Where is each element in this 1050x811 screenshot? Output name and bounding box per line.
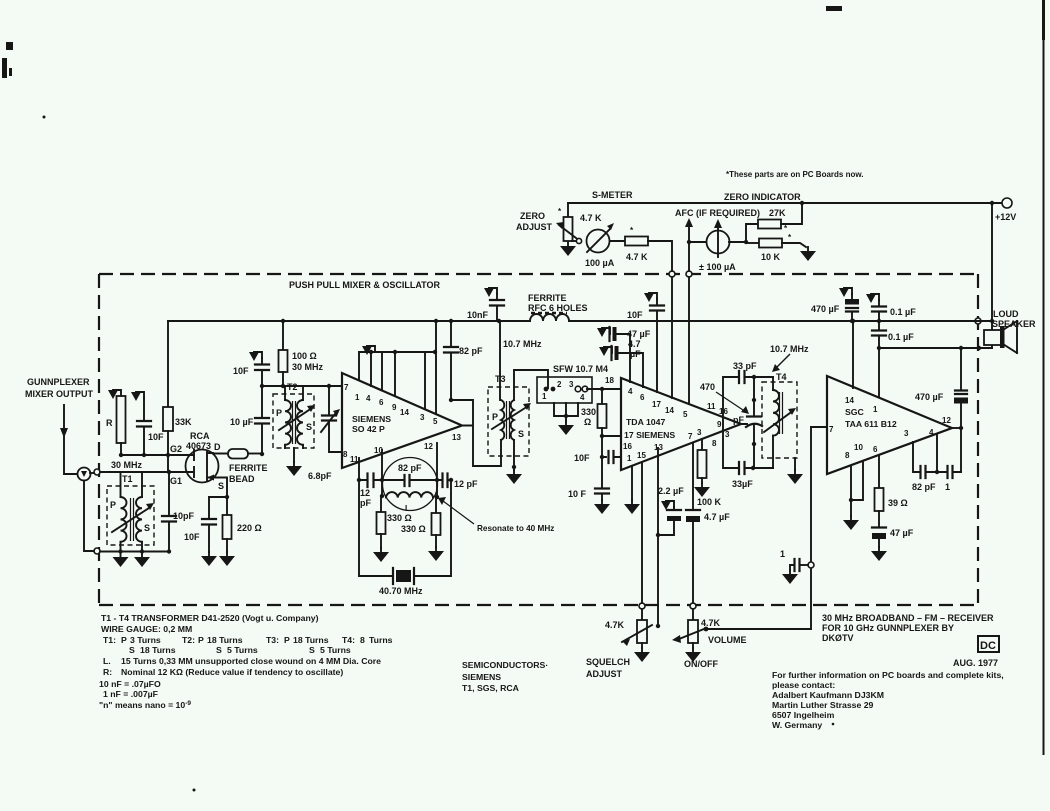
svg-text:33µF: 33µF xyxy=(732,479,753,489)
resistor R (bias) xyxy=(106,390,126,455)
capacitor 1n squelch line xyxy=(780,549,814,584)
svg-text:DKØTV: DKØTV xyxy=(822,633,854,643)
resistor 330 ohm right xyxy=(401,497,444,561)
svg-text:ZERO: ZERO xyxy=(520,211,545,221)
wire connector shield xyxy=(84,481,94,552)
node: border crossing circles xyxy=(669,271,675,277)
capacitor 1n feedback xyxy=(945,466,953,492)
svg-text:1 nF = .007µF: 1 nF = .007µF xyxy=(103,689,158,699)
svg-text:3: 3 xyxy=(904,429,909,438)
svg-text:6: 6 xyxy=(640,393,645,402)
svg-text:FERRITE: FERRITE xyxy=(229,463,268,473)
svg-text:14: 14 xyxy=(845,396,854,405)
svg-text:ADJUST: ADJUST xyxy=(516,222,553,232)
svg-text:10 F: 10 F xyxy=(568,489,587,499)
contact text xyxy=(772,670,1004,730)
svg-text:17 SIEMENS: 17 SIEMENS xyxy=(624,430,675,440)
wire pin13 to T3 loop xyxy=(449,398,500,466)
svg-text:1: 1 xyxy=(945,482,950,492)
ground T3 xyxy=(506,465,522,484)
terminal +12V xyxy=(1002,198,1012,208)
AFC arrow xyxy=(685,218,693,271)
svg-text:7: 7 xyxy=(688,432,693,441)
svg-text:4.7 K: 4.7 K xyxy=(580,213,602,223)
svg-text:1: 1 xyxy=(627,454,632,463)
svg-text:30 MHz: 30 MHz xyxy=(292,362,324,372)
label semiconductors xyxy=(462,660,548,693)
wire U3 output apex xyxy=(952,427,961,429)
wire G2 net xyxy=(121,454,190,456)
svg-text:220 Ω: 220 Ω xyxy=(237,523,262,533)
svg-text:4: 4 xyxy=(366,394,371,403)
capacitor 470uF output xyxy=(915,348,968,472)
resistor 100 ohm xyxy=(279,319,324,388)
svg-text:For further information on PC: For further information on PC boards and… xyxy=(772,670,1004,680)
ground T1 P xyxy=(113,553,129,567)
svg-text:11: 11 xyxy=(707,402,716,411)
svg-text:330: 330 xyxy=(581,407,596,417)
wire T2 top net xyxy=(262,385,342,387)
resistor 4.7K xyxy=(625,226,648,262)
op-amp U1 SIEMENS SO 42 P xyxy=(342,373,462,468)
svg-text:14: 14 xyxy=(400,408,409,417)
svg-text:5: 5 xyxy=(683,410,688,419)
svg-text:T1: T1 xyxy=(122,474,133,484)
ferrite bead FB1 xyxy=(213,449,268,484)
ground T1 S xyxy=(134,553,150,567)
svg-text:47 µF: 47 µF xyxy=(890,528,914,538)
wire pin13 to squelch wiper xyxy=(657,448,659,626)
op-amp U3 TAA 611 B12 xyxy=(827,376,952,474)
capacitor 470pF variable xyxy=(700,377,762,468)
svg-text:82 pF: 82 pF xyxy=(912,482,936,492)
svg-text:3: 3 xyxy=(569,380,574,389)
svg-text:S: S xyxy=(144,523,150,533)
wire 4.7K to pin14 column xyxy=(648,241,672,271)
svg-text:1: 1 xyxy=(542,392,547,401)
svg-text:0.1 µF: 0.1 µF xyxy=(888,332,914,342)
svg-text:10 µF: 10 µF xyxy=(230,417,254,427)
svg-text:P: P xyxy=(492,412,498,422)
svg-text:100 K: 100 K xyxy=(697,497,722,507)
svg-text:6507 Ingelheim: 6507 Ingelheim xyxy=(772,710,835,720)
svg-text:R: R xyxy=(106,418,113,428)
svg-text:L: L xyxy=(405,504,410,513)
wire G1 net xyxy=(100,471,190,473)
svg-text:6: 6 xyxy=(873,445,878,454)
svg-text:15: 15 xyxy=(637,451,646,460)
wire input with arrow xyxy=(60,405,77,474)
node wiper xyxy=(572,240,576,242)
capacitor 33pF top xyxy=(733,361,757,383)
svg-text:82 pF: 82 pF xyxy=(459,346,483,356)
svg-text:RCA: RCA xyxy=(190,431,210,441)
svg-text:10F: 10F xyxy=(148,432,164,442)
svg-text:6: 6 xyxy=(379,398,384,407)
svg-text:LOUD: LOUD xyxy=(993,309,1019,319)
svg-text:9: 9 xyxy=(717,420,722,429)
svg-text:10.7 MHz: 10.7 MHz xyxy=(770,344,809,354)
svg-text:30 MHz: 30 MHz xyxy=(111,460,143,470)
svg-text:100 µA: 100 µA xyxy=(585,258,615,268)
capacitor 10F (T2 top) xyxy=(233,352,269,386)
svg-text:SIEMENS: SIEMENS xyxy=(352,414,391,424)
svg-text:ON/OFF: ON/OFF xyxy=(684,659,718,669)
svg-text:2.2 µF: 2.2 µF xyxy=(658,486,684,496)
wire pin5 AFC column xyxy=(688,277,690,404)
capacitor 10uF coupling xyxy=(230,384,269,456)
wire output rail xyxy=(879,346,992,350)
svg-text:S: S xyxy=(518,429,524,439)
wire T3 to SFW xyxy=(514,370,548,388)
svg-text:33 pF: 33 pF xyxy=(733,361,757,371)
capacitor 10F (gate2) xyxy=(131,392,164,455)
svg-text:1: 1 xyxy=(355,393,360,402)
svg-text:330 Ω: 330 Ω xyxy=(387,513,412,523)
svg-text:WIRE GAUGE: 0,2 MM: WIRE GAUGE: 0,2 MM xyxy=(101,624,192,634)
wire U3 pin3 pin4 feedback xyxy=(913,435,961,474)
svg-text:10F: 10F xyxy=(233,366,249,376)
svg-text:27K: 27K xyxy=(769,208,786,218)
capacitor 82pF IF xyxy=(444,319,483,400)
svg-text:470 µF: 470 µF xyxy=(915,392,944,402)
capacitor 10F (source) xyxy=(184,497,217,566)
svg-text:S: S xyxy=(218,481,224,491)
capacitor 2.2uF xyxy=(656,486,684,537)
svg-text:4.7K: 4.7K xyxy=(605,620,625,630)
capacitor 10nF xyxy=(467,288,504,323)
svg-text:BEAD: BEAD xyxy=(229,474,255,484)
svg-text:SO 42 P: SO 42 P xyxy=(352,424,385,434)
svg-text:TDA 1047: TDA 1047 xyxy=(626,417,665,427)
svg-text:10nF: 10nF xyxy=(467,310,489,320)
svg-text:DC: DC xyxy=(980,640,996,652)
svg-text:µF: µF xyxy=(630,349,641,359)
svg-text:S: S xyxy=(306,422,312,432)
svg-text:12: 12 xyxy=(424,442,433,451)
svg-text:2: 2 xyxy=(557,380,562,389)
wire pin15 to squelch xyxy=(641,462,643,603)
svg-text:± 100 µA: ± 100 µA xyxy=(699,262,736,272)
capacitor 10F series pin1 xyxy=(574,451,621,463)
transformer T2 xyxy=(273,382,315,476)
svg-text:33K: 33K xyxy=(175,417,192,427)
svg-text:10F: 10F xyxy=(627,310,643,320)
svg-text:RFC 6 HOLES: RFC 6 HOLES xyxy=(528,303,588,313)
wire pin11 down xyxy=(358,458,360,480)
capacitor 10pF xyxy=(162,472,195,552)
svg-text:3: 3 xyxy=(697,428,702,437)
svg-text:G2: G2 xyxy=(170,444,182,454)
capacitor 82pF osc xyxy=(398,463,422,486)
resistor 100K xyxy=(694,439,722,507)
svg-text:AUG. 1977: AUG. 1977 xyxy=(953,658,998,668)
wire osc feedback loop xyxy=(359,480,451,576)
wire volume to U3 pin7 xyxy=(706,427,811,629)
svg-text:11: 11 xyxy=(350,455,359,464)
svg-text:39 Ω: 39 Ω xyxy=(888,498,908,508)
resistor 330 ohm left xyxy=(373,496,412,562)
svg-text:8: 8 xyxy=(712,439,717,448)
svg-text:pF: pF xyxy=(733,415,744,425)
svg-text:8: 8 xyxy=(343,450,348,459)
svg-text:4.7 K: 4.7 K xyxy=(626,252,648,262)
svg-text:4.7: 4.7 xyxy=(628,339,641,349)
wire pin12 down xyxy=(436,443,438,497)
transformer T1 xyxy=(107,472,154,552)
wire pin16 ground xyxy=(624,466,640,514)
wire pin17 xyxy=(602,435,621,437)
svg-text:10.7 MHz: 10.7 MHz xyxy=(503,339,542,349)
svg-text:please contact:: please contact: xyxy=(772,680,835,690)
svg-text:SGC: SGC xyxy=(845,407,865,417)
svg-text:47 µF: 47 µF xyxy=(627,329,651,339)
resistor 33K xyxy=(163,321,192,472)
ground hook U1 bus xyxy=(362,346,375,355)
svg-text:R:Nominal 12 KΩ (Reduce value: R:Nominal 12 KΩ (Reduce value if tendenc… xyxy=(103,667,343,677)
svg-text:4.7 µF: 4.7 µF xyxy=(704,512,730,522)
svg-text:D: D xyxy=(214,442,221,452)
capacitor 47uF xyxy=(597,327,651,382)
capacitor 12pF right xyxy=(443,474,479,490)
svg-text:12 pF: 12 pF xyxy=(454,479,478,489)
wire pin10 down xyxy=(381,450,383,496)
svg-text:16: 16 xyxy=(623,442,632,451)
svg-text:T1, SGS, RCA: T1, SGS, RCA xyxy=(462,683,520,693)
wire T1 bottom net xyxy=(100,551,169,553)
svg-text:9: 9 xyxy=(392,403,397,412)
wire U3 pin14 supply xyxy=(851,319,855,388)
svg-text:5: 5 xyxy=(433,417,438,426)
capacitor 4.7uF top xyxy=(599,339,643,387)
svg-text:14: 14 xyxy=(665,406,674,415)
svg-text:82 pF: 82 pF xyxy=(398,463,422,473)
op-amp U2 TDA 1047 xyxy=(605,376,741,470)
svg-text:10pF: 10pF xyxy=(173,511,195,521)
svg-text:4: 4 xyxy=(929,428,934,437)
svg-text:PUSH PULL MIXER & OSCILLATOR: PUSH PULL MIXER & OSCILLATOR xyxy=(289,280,441,290)
svg-text:"n" means nano = 10-9: "n" means nano = 10-9 xyxy=(99,700,191,710)
crystal X1 40.70 MHz xyxy=(379,568,423,596)
wire SFW grounds xyxy=(554,403,578,435)
svg-text:470: 470 xyxy=(700,382,715,392)
wire pin14 AFC-meter column xyxy=(671,277,673,398)
svg-text:P: P xyxy=(110,500,116,510)
meter M2 zero indicator xyxy=(699,219,736,272)
wire S-meter rail xyxy=(568,203,1002,321)
svg-text:10 K: 10 K xyxy=(761,252,781,262)
svg-text:ADJUST: ADJUST xyxy=(586,669,623,679)
ground T4 xyxy=(787,458,803,484)
potentiometer squelch 4.7K xyxy=(586,609,660,679)
transformer T4 xyxy=(762,372,797,468)
resistor 220 ohm xyxy=(219,497,262,566)
svg-text:18: 18 xyxy=(605,376,614,385)
capacitor 0.1uF lower xyxy=(872,319,914,350)
capacitor 33pF bottom xyxy=(732,462,753,489)
svg-text:12: 12 xyxy=(360,488,370,498)
connector J1 xyxy=(78,468,91,481)
svg-text:3: 3 xyxy=(725,430,730,439)
svg-text:G1: G1 xyxy=(170,476,182,486)
svg-text:0.1 µF: 0.1 µF xyxy=(890,307,916,317)
svg-text:470 µF: 470 µF xyxy=(811,304,840,314)
transformer T3 xyxy=(488,321,531,467)
svg-text:SQUELCH: SQUELCH xyxy=(586,657,630,667)
wire J1 to border xyxy=(90,472,94,474)
svg-text:6.8pF: 6.8pF xyxy=(308,471,332,481)
svg-text:SEMICONDUCTORS·: SEMICONDUCTORS· xyxy=(462,660,548,670)
oscillator tank wire xyxy=(357,478,453,482)
svg-text:Adalbert Kaufmann DJ3KM: Adalbert Kaufmann DJ3KM xyxy=(772,690,884,700)
svg-text:S-METER: S-METER xyxy=(592,190,633,200)
svg-text:7: 7 xyxy=(344,383,349,392)
svg-text:GUNNPLEXER: GUNNPLEXER xyxy=(27,377,90,387)
capacitor 10F RFC xyxy=(627,293,664,392)
svg-text:13: 13 xyxy=(452,433,461,442)
svg-text:40673: 40673 xyxy=(186,441,211,451)
svg-text:100 Ω: 100 Ω xyxy=(292,351,317,361)
logo DC xyxy=(978,636,999,652)
dashed enclosure border xyxy=(99,274,978,605)
wire U3 pin8 pin10 ground xyxy=(843,461,863,530)
resistor 27K xyxy=(746,201,804,242)
svg-text:FOR 10 GHz GUNNPLEXER BY: FOR 10 GHz GUNNPLEXER BY xyxy=(822,623,954,633)
svg-text:30 MHz BROADBAND – FM – RECEIV: 30 MHz BROADBAND – FM – RECEIVER xyxy=(822,613,994,623)
svg-text:10: 10 xyxy=(854,443,863,452)
oscillator circle xyxy=(383,458,438,511)
svg-text:17: 17 xyxy=(652,400,661,409)
capacitor 4.7uF AF xyxy=(686,443,730,603)
svg-text:7: 7 xyxy=(829,425,834,434)
svg-text:1: 1 xyxy=(873,405,878,414)
svg-text:T1 - T4 TRANSFORMER D41-2520 (: T1 - T4 TRANSFORMER D41-2520 (Vogt u. Co… xyxy=(101,613,319,623)
filter FL1 SFW 10.7 M4 xyxy=(537,364,608,403)
inductor RFC 6 holes xyxy=(528,293,588,321)
svg-text:4: 4 xyxy=(628,387,633,396)
svg-text:VOLUME: VOLUME xyxy=(708,635,747,645)
wire +12V bus xyxy=(168,320,992,322)
svg-text:AFC (IF REQUIRED): AFC (IF REQUIRED) xyxy=(675,208,760,218)
svg-text:4: 4 xyxy=(580,393,585,402)
capacitor 470uF supply xyxy=(811,288,859,323)
annotation resonate to 40 MHz xyxy=(438,497,554,533)
wire meter to 4.7K xyxy=(610,240,625,242)
resistor 39 ohm xyxy=(875,455,908,527)
notes block xyxy=(99,613,393,710)
svg-text:*These parts are on PC Boards: *These parts are on PC Boards now. xyxy=(726,170,864,179)
capacitor 82pF feedback xyxy=(912,466,936,492)
svg-text:12: 12 xyxy=(942,416,951,425)
svg-text:T2: T2 xyxy=(287,382,298,392)
resistor 10K xyxy=(746,233,816,262)
wire SFW out to U2 pin18 xyxy=(587,388,621,390)
capacitor 12pF left xyxy=(360,474,374,509)
label 10.7 MHz discriminator xyxy=(770,344,809,372)
svg-text:SFW 10.7 M4: SFW 10.7 M4 xyxy=(553,364,608,374)
svg-text:P: P xyxy=(276,408,282,418)
meter M1 100uA xyxy=(585,223,615,268)
svg-text:Ω: Ω xyxy=(584,417,591,427)
svg-text:3: 3 xyxy=(420,413,425,422)
wire U3 pin7 lead xyxy=(811,426,827,428)
inductor L osc xyxy=(386,492,433,513)
capacitor 6.8pF trimmer xyxy=(308,384,342,481)
svg-text:SIEMENS: SIEMENS xyxy=(462,672,501,682)
wire M2 right xyxy=(729,241,746,243)
svg-text:10F: 10F xyxy=(574,453,590,463)
svg-text:W. Germany: W. Germany xyxy=(772,720,822,730)
loudspeaker LS1 xyxy=(984,309,1036,353)
svg-text:+12V: +12V xyxy=(995,212,1016,222)
svg-text:1: 1 xyxy=(780,549,785,559)
discriminator loop wires xyxy=(723,375,773,470)
svg-text:4.7K: 4.7K xyxy=(701,618,721,628)
svg-text:Martin Luther Strasse 29: Martin Luther Strasse 29 xyxy=(772,700,874,710)
svg-text:TAA 611 B12: TAA 611 B12 xyxy=(845,419,897,429)
wire U3 pin1 xyxy=(878,348,880,397)
svg-text:Resonate to 40 MHz: Resonate to 40 MHz xyxy=(477,524,554,533)
svg-text:L.15 Turns 0,33 MM unsupported: L.15 Turns 0,33 MM unsupported close wou… xyxy=(103,656,381,666)
transistor Q1 RCA 40673 xyxy=(170,431,224,491)
svg-text:ZERO INDICATOR: ZERO INDICATOR xyxy=(724,192,801,202)
capacitor 47uF xyxy=(871,528,914,562)
resistor 330 (SFW load) xyxy=(581,389,607,459)
svg-text:8: 8 xyxy=(845,451,850,460)
svg-text:pF: pF xyxy=(360,498,371,508)
svg-text:SPEAKER: SPEAKER xyxy=(992,319,1036,329)
capacitor 10 F to ground xyxy=(568,457,610,514)
wire source net xyxy=(209,478,227,498)
wire U1 supply pin bus xyxy=(359,319,438,414)
svg-text:T3: T3 xyxy=(495,374,506,384)
capacitor 0.1uF top xyxy=(866,294,916,321)
svg-text:40.70 MHz: 40.70 MHz xyxy=(379,586,423,596)
svg-text:FERRITE: FERRITE xyxy=(528,293,567,303)
potentiometer ZERO ADJUST 4.7K xyxy=(556,203,602,256)
svg-text:330 Ω: 330 Ω xyxy=(401,524,426,534)
wire M2 left xyxy=(689,241,706,243)
potentiometer volume 4.7K xyxy=(672,609,747,669)
svg-text:MIXER OUTPUT: MIXER OUTPUT xyxy=(25,389,94,399)
svg-text:10F: 10F xyxy=(184,532,200,542)
svg-text:T4: T4 xyxy=(776,372,787,382)
svg-text:10 nF = .07µFO: 10 nF = .07µFO xyxy=(99,679,161,689)
